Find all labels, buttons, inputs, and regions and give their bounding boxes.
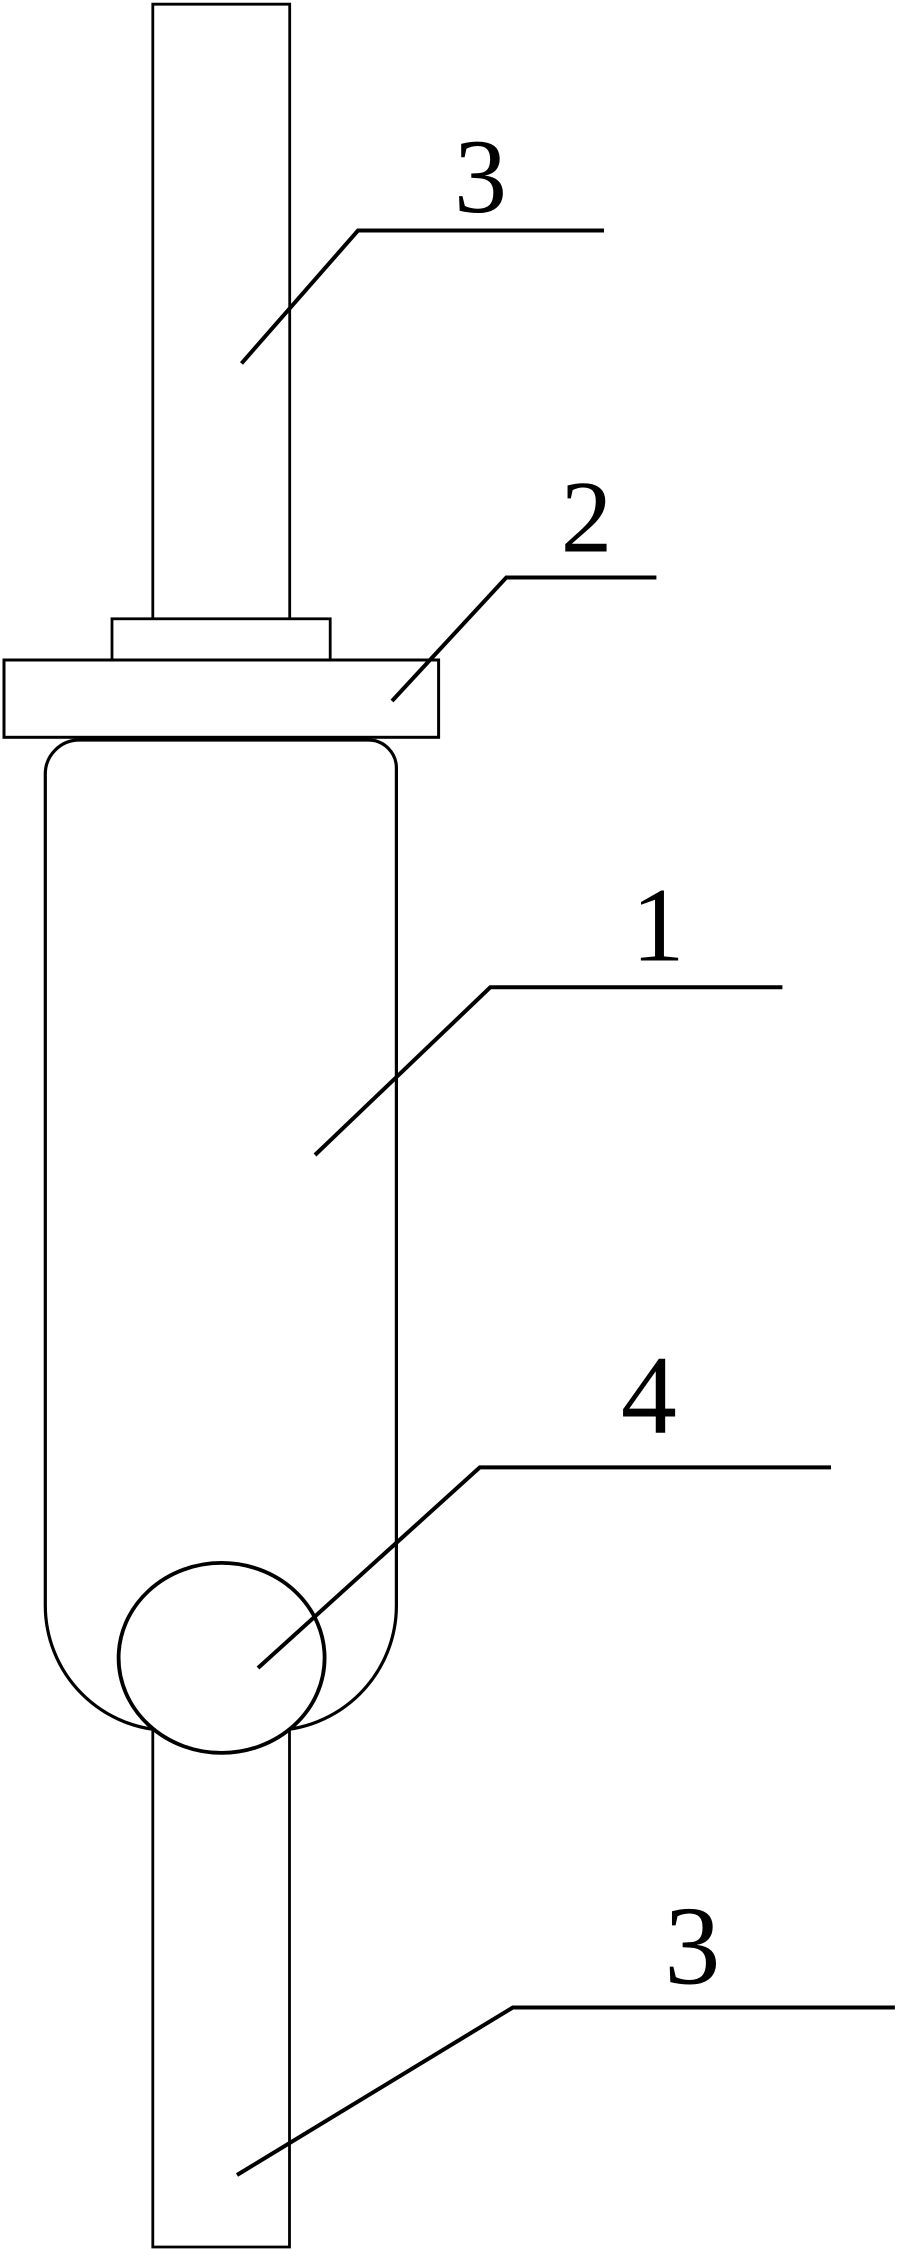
svg-text:1: 1 — [632, 867, 685, 984]
svg-text:3: 3 — [454, 118, 507, 235]
svg-text:2: 2 — [561, 461, 613, 575]
svg-text:3: 3 — [664, 1885, 720, 2009]
svg-text:4: 4 — [621, 1334, 677, 1458]
